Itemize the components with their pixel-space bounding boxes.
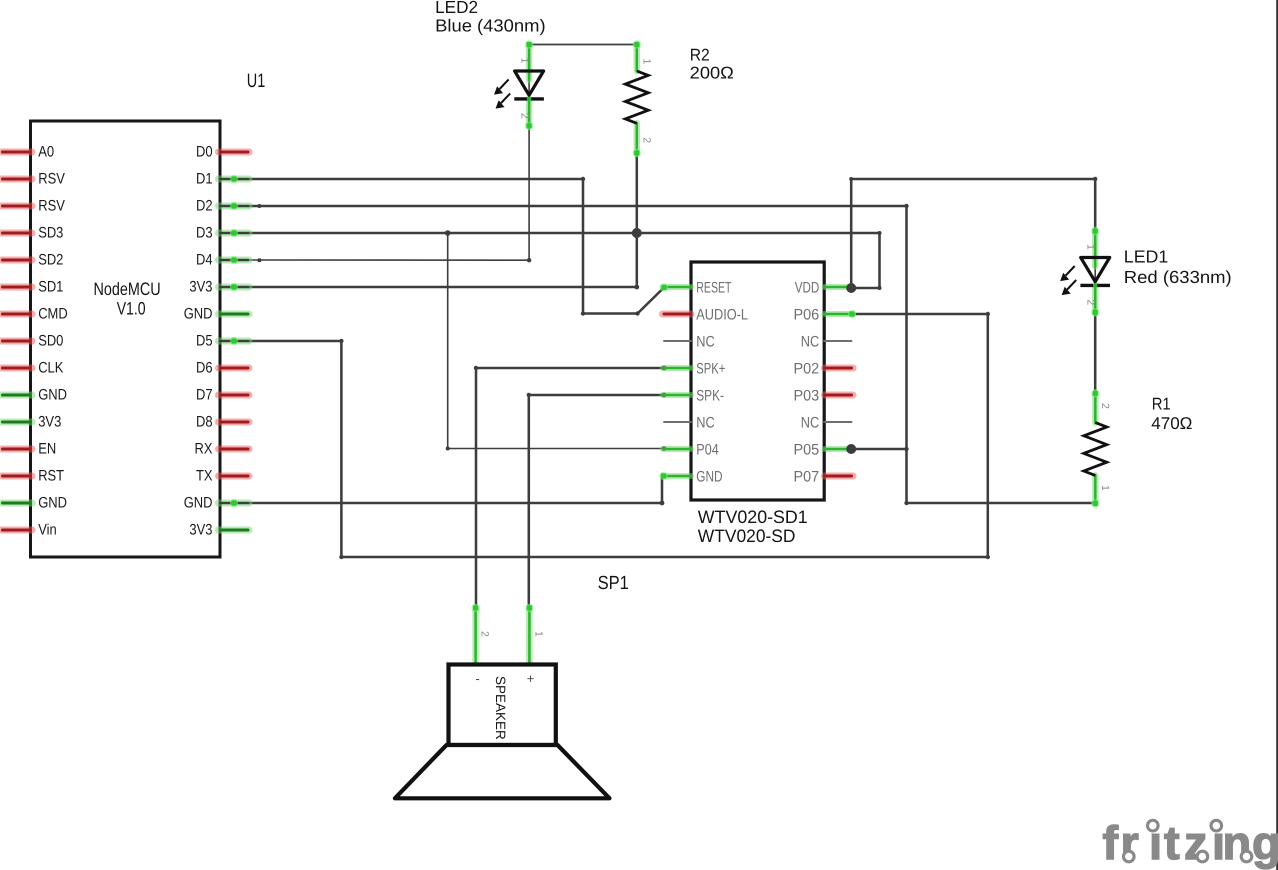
- svg-text:200Ω: 200Ω: [690, 64, 734, 83]
- svg-text:g: g: [1252, 816, 1278, 869]
- svg-text:2: 2: [519, 113, 531, 119]
- svg-text:U1: U1: [247, 70, 265, 92]
- svg-text:GND: GND: [184, 306, 213, 323]
- svg-text:2: 2: [1099, 403, 1111, 409]
- svg-text:D2: D2: [196, 198, 213, 215]
- svg-text:t: t: [1164, 816, 1180, 869]
- svg-text:R1: R1: [1152, 395, 1171, 414]
- svg-text:V1.0: V1.0: [117, 298, 146, 318]
- svg-text:1: 1: [1099, 485, 1111, 491]
- svg-text:RX: RX: [195, 441, 213, 458]
- svg-text:P06: P06: [794, 307, 820, 324]
- svg-text:LED1: LED1: [1124, 247, 1169, 267]
- svg-text:RESET: RESET: [696, 280, 731, 297]
- svg-text:GND: GND: [696, 469, 722, 486]
- svg-text:WTV020-SD: WTV020-SD: [698, 526, 796, 546]
- svg-text:EN: EN: [38, 441, 56, 458]
- svg-text:CLK: CLK: [38, 360, 63, 377]
- svg-text:AUDIO-L: AUDIO-L: [696, 307, 748, 324]
- svg-text:SPK+: SPK+: [696, 361, 725, 378]
- svg-text:SD0: SD0: [38, 333, 63, 350]
- svg-text:SD2: SD2: [38, 252, 63, 269]
- svg-text:P04: P04: [696, 442, 719, 459]
- svg-text:SP1: SP1: [598, 573, 629, 594]
- svg-text:P05: P05: [794, 442, 820, 459]
- svg-text:1: 1: [640, 59, 652, 65]
- svg-text:D0: D0: [196, 144, 213, 161]
- svg-text:CMD: CMD: [38, 306, 68, 323]
- svg-text:D4: D4: [196, 252, 213, 269]
- svg-text:TX: TX: [196, 468, 213, 485]
- svg-text:D7: D7: [196, 387, 213, 404]
- svg-text:3V3: 3V3: [189, 522, 212, 539]
- svg-text:f: f: [1103, 816, 1119, 869]
- svg-text:3V3: 3V3: [38, 414, 61, 431]
- svg-text:+: +: [527, 671, 535, 686]
- svg-text:1: 1: [519, 58, 531, 64]
- svg-text:470Ω: 470Ω: [1151, 414, 1192, 433]
- svg-text:Vin: Vin: [38, 522, 57, 539]
- svg-text:NC: NC: [696, 334, 715, 351]
- svg-text:VDD: VDD: [795, 280, 820, 297]
- svg-text:P03: P03: [794, 388, 820, 405]
- svg-text:1: 1: [1085, 244, 1097, 250]
- svg-text:Blue (430nm): Blue (430nm): [435, 15, 546, 35]
- svg-text:D5: D5: [196, 333, 213, 350]
- svg-text:2: 2: [479, 631, 491, 637]
- svg-text:Red (633nm): Red (633nm): [1124, 267, 1232, 287]
- svg-text:SPEAKER: SPEAKER: [493, 676, 508, 740]
- svg-text:GND: GND: [184, 495, 213, 512]
- svg-text:1: 1: [532, 631, 544, 637]
- svg-text:2: 2: [640, 137, 652, 143]
- svg-text:NC: NC: [801, 415, 820, 432]
- svg-text:GND: GND: [38, 387, 67, 404]
- svg-text:D3: D3: [196, 225, 213, 242]
- svg-text:RSV: RSV: [38, 171, 65, 188]
- svg-text:2: 2: [1085, 299, 1097, 305]
- svg-text:SD3: SD3: [38, 225, 63, 242]
- svg-text:D1: D1: [196, 171, 213, 188]
- svg-text:3V3: 3V3: [189, 279, 212, 296]
- svg-text:R2: R2: [690, 45, 710, 64]
- svg-text:SD1: SD1: [38, 279, 63, 296]
- svg-text:P07: P07: [794, 469, 820, 486]
- svg-text:D8: D8: [196, 414, 213, 431]
- svg-text:P02: P02: [794, 361, 820, 378]
- svg-text:A0: A0: [38, 144, 54, 161]
- svg-text:SPK-: SPK-: [696, 388, 724, 405]
- svg-text:GND: GND: [38, 495, 67, 512]
- svg-text:RSV: RSV: [38, 198, 65, 215]
- svg-text:NodeMCU: NodeMCU: [94, 279, 161, 299]
- svg-text:NC: NC: [696, 415, 715, 432]
- svg-text:D6: D6: [196, 360, 213, 377]
- svg-text:NC: NC: [801, 334, 820, 351]
- svg-text:WTV020-SD1: WTV020-SD1: [698, 507, 808, 527]
- svg-text:-: -: [475, 671, 479, 686]
- svg-text:RST: RST: [38, 468, 64, 485]
